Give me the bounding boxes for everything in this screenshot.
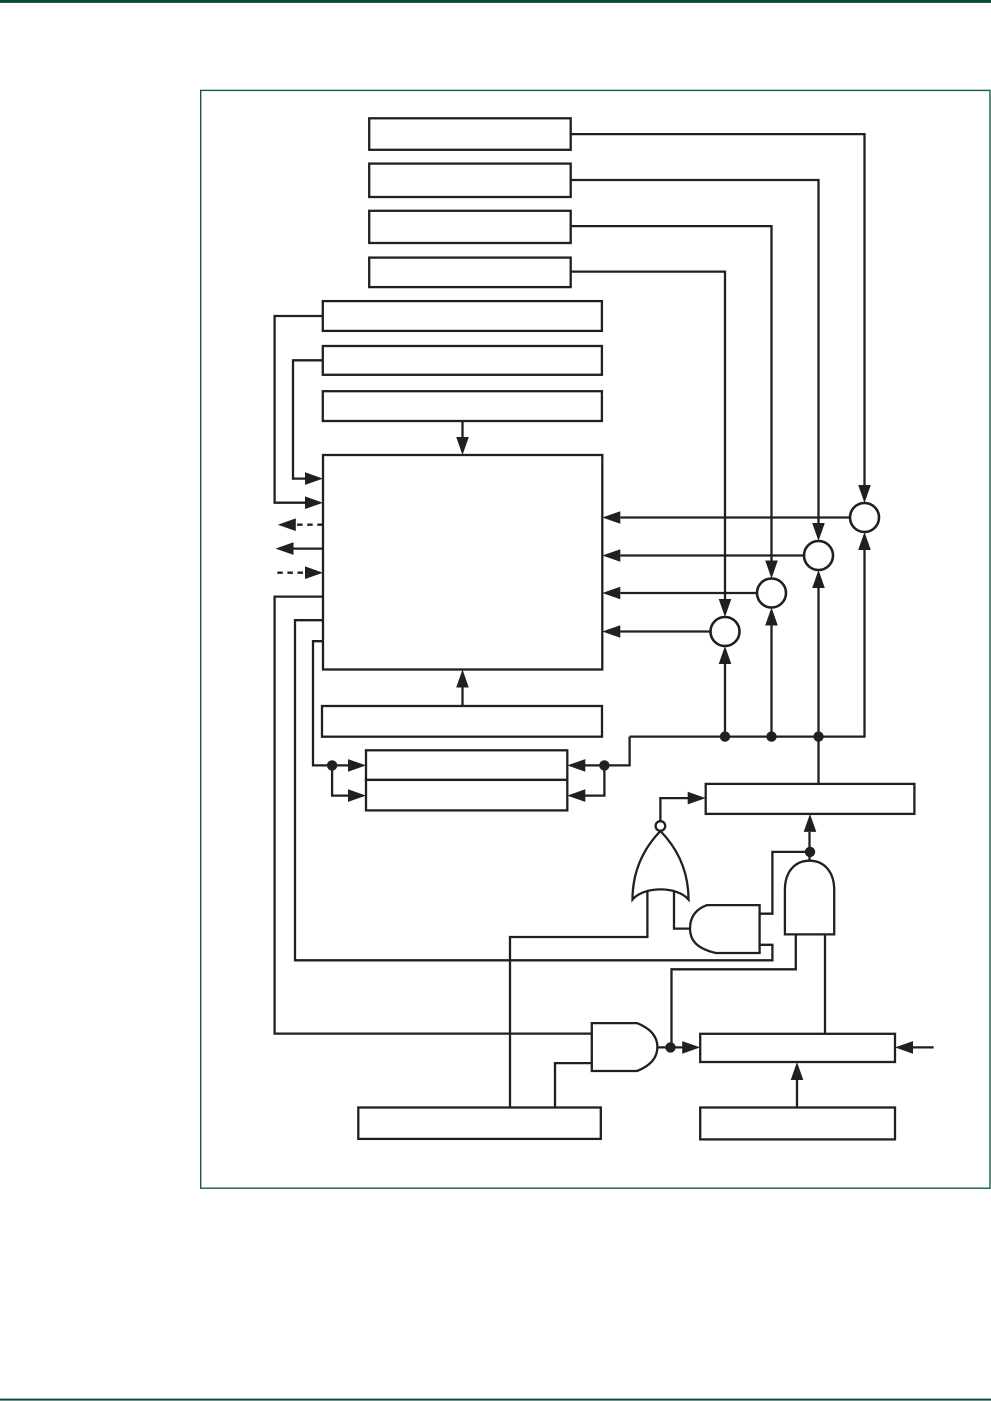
wire bus to box E right input [585,737,630,766]
junction dot E/F right [599,760,609,770]
box I (bottom left register) [358,1108,601,1139]
box E (upper stacked register) [366,750,567,780]
wire T3 to summing circle 3 [571,226,772,561]
wire T4 to summing circle 4 [571,272,725,600]
summing circle 3 [757,579,786,608]
box T4 (top register 4) [369,258,571,288]
dashed output arrow left [296,524,323,526]
box C (left register 3) [323,391,602,421]
wire tall AND input 1 tap from AND output [672,934,796,1047]
wire box B to big block [293,360,323,478]
wire tall AND output to box H [808,832,810,861]
box H (right register) [706,784,915,814]
junction dot bus / circle 3 line [766,731,776,741]
wire T1 to summing circle 1 [571,134,865,486]
box F (lower stacked register) [366,780,567,811]
arrow box D to big block [461,687,463,706]
AND gate pointing left body [690,905,760,953]
bottom green line [0,1399,991,1401]
wire bus to circle 2 and box H [817,588,819,784]
wire circle 4 output to big block [620,630,710,632]
box J (bottom right register) [700,1108,895,1140]
wire bus to circle 3 [770,626,772,737]
box T1 (top register 1) [369,118,571,150]
wire branch to box F left input [332,765,349,795]
box B (left register 2) [323,346,602,375]
junction dot bus / circle 2 line [813,731,823,741]
frame border of figure [201,90,990,1188]
AND gate pointing right body [592,1023,658,1071]
wire branch to box F right input [585,765,604,795]
dashed input arrow right [277,572,305,574]
arrow box J to box G [796,1080,798,1108]
wire NOR output to box H [660,798,688,821]
NOR gate bubble [656,821,666,831]
wire circle 2 output to big block [620,554,804,556]
wire AND lower input from box I [555,1063,592,1107]
box T2 (top register 2) [369,164,571,197]
summing circle 1 [850,503,879,532]
wire big block output 2 to rounded gate [295,620,772,960]
wire circle 3 output to big block [620,592,757,594]
top green bar [0,0,991,3]
wire circle 1 output to big block [620,516,850,518]
tall AND gate body [785,861,834,935]
wire T2 to summing circle 2 [571,180,819,524]
junction dot E/F left [327,760,337,770]
NOR gate body [633,831,689,900]
wire bus to circle 4 [724,664,726,737]
junction dot AND output [665,1042,675,1052]
box A (left register 1) [323,301,602,331]
wire big block output 3 to boxes E/F [313,641,349,765]
summing circle 2 [804,541,833,570]
summing circle 4 [711,617,740,646]
arrow box C to big block [461,421,463,438]
junction dot bus / circle 4 line [720,731,730,741]
wire NOR left input from box I [510,891,647,1108]
wire left AND gate input A from node [760,852,806,914]
wire tall AND input 2 from box G [824,934,826,1033]
wire NOR right input from rounded gate [674,892,690,929]
wire big block output 1 to AND gate [275,597,592,1034]
solid output arrow left [293,547,323,549]
box D (below big block) [322,706,602,737]
big central block [323,455,602,670]
box G (lower right register) [700,1034,895,1062]
box T3 (top register 3) [369,211,571,243]
wire box A to big block [275,316,323,503]
wire external input to box G [913,1046,934,1048]
junction dot tall AND output [805,847,815,857]
wire AND output to box G [657,1046,684,1048]
wire feedback bus [630,550,865,737]
